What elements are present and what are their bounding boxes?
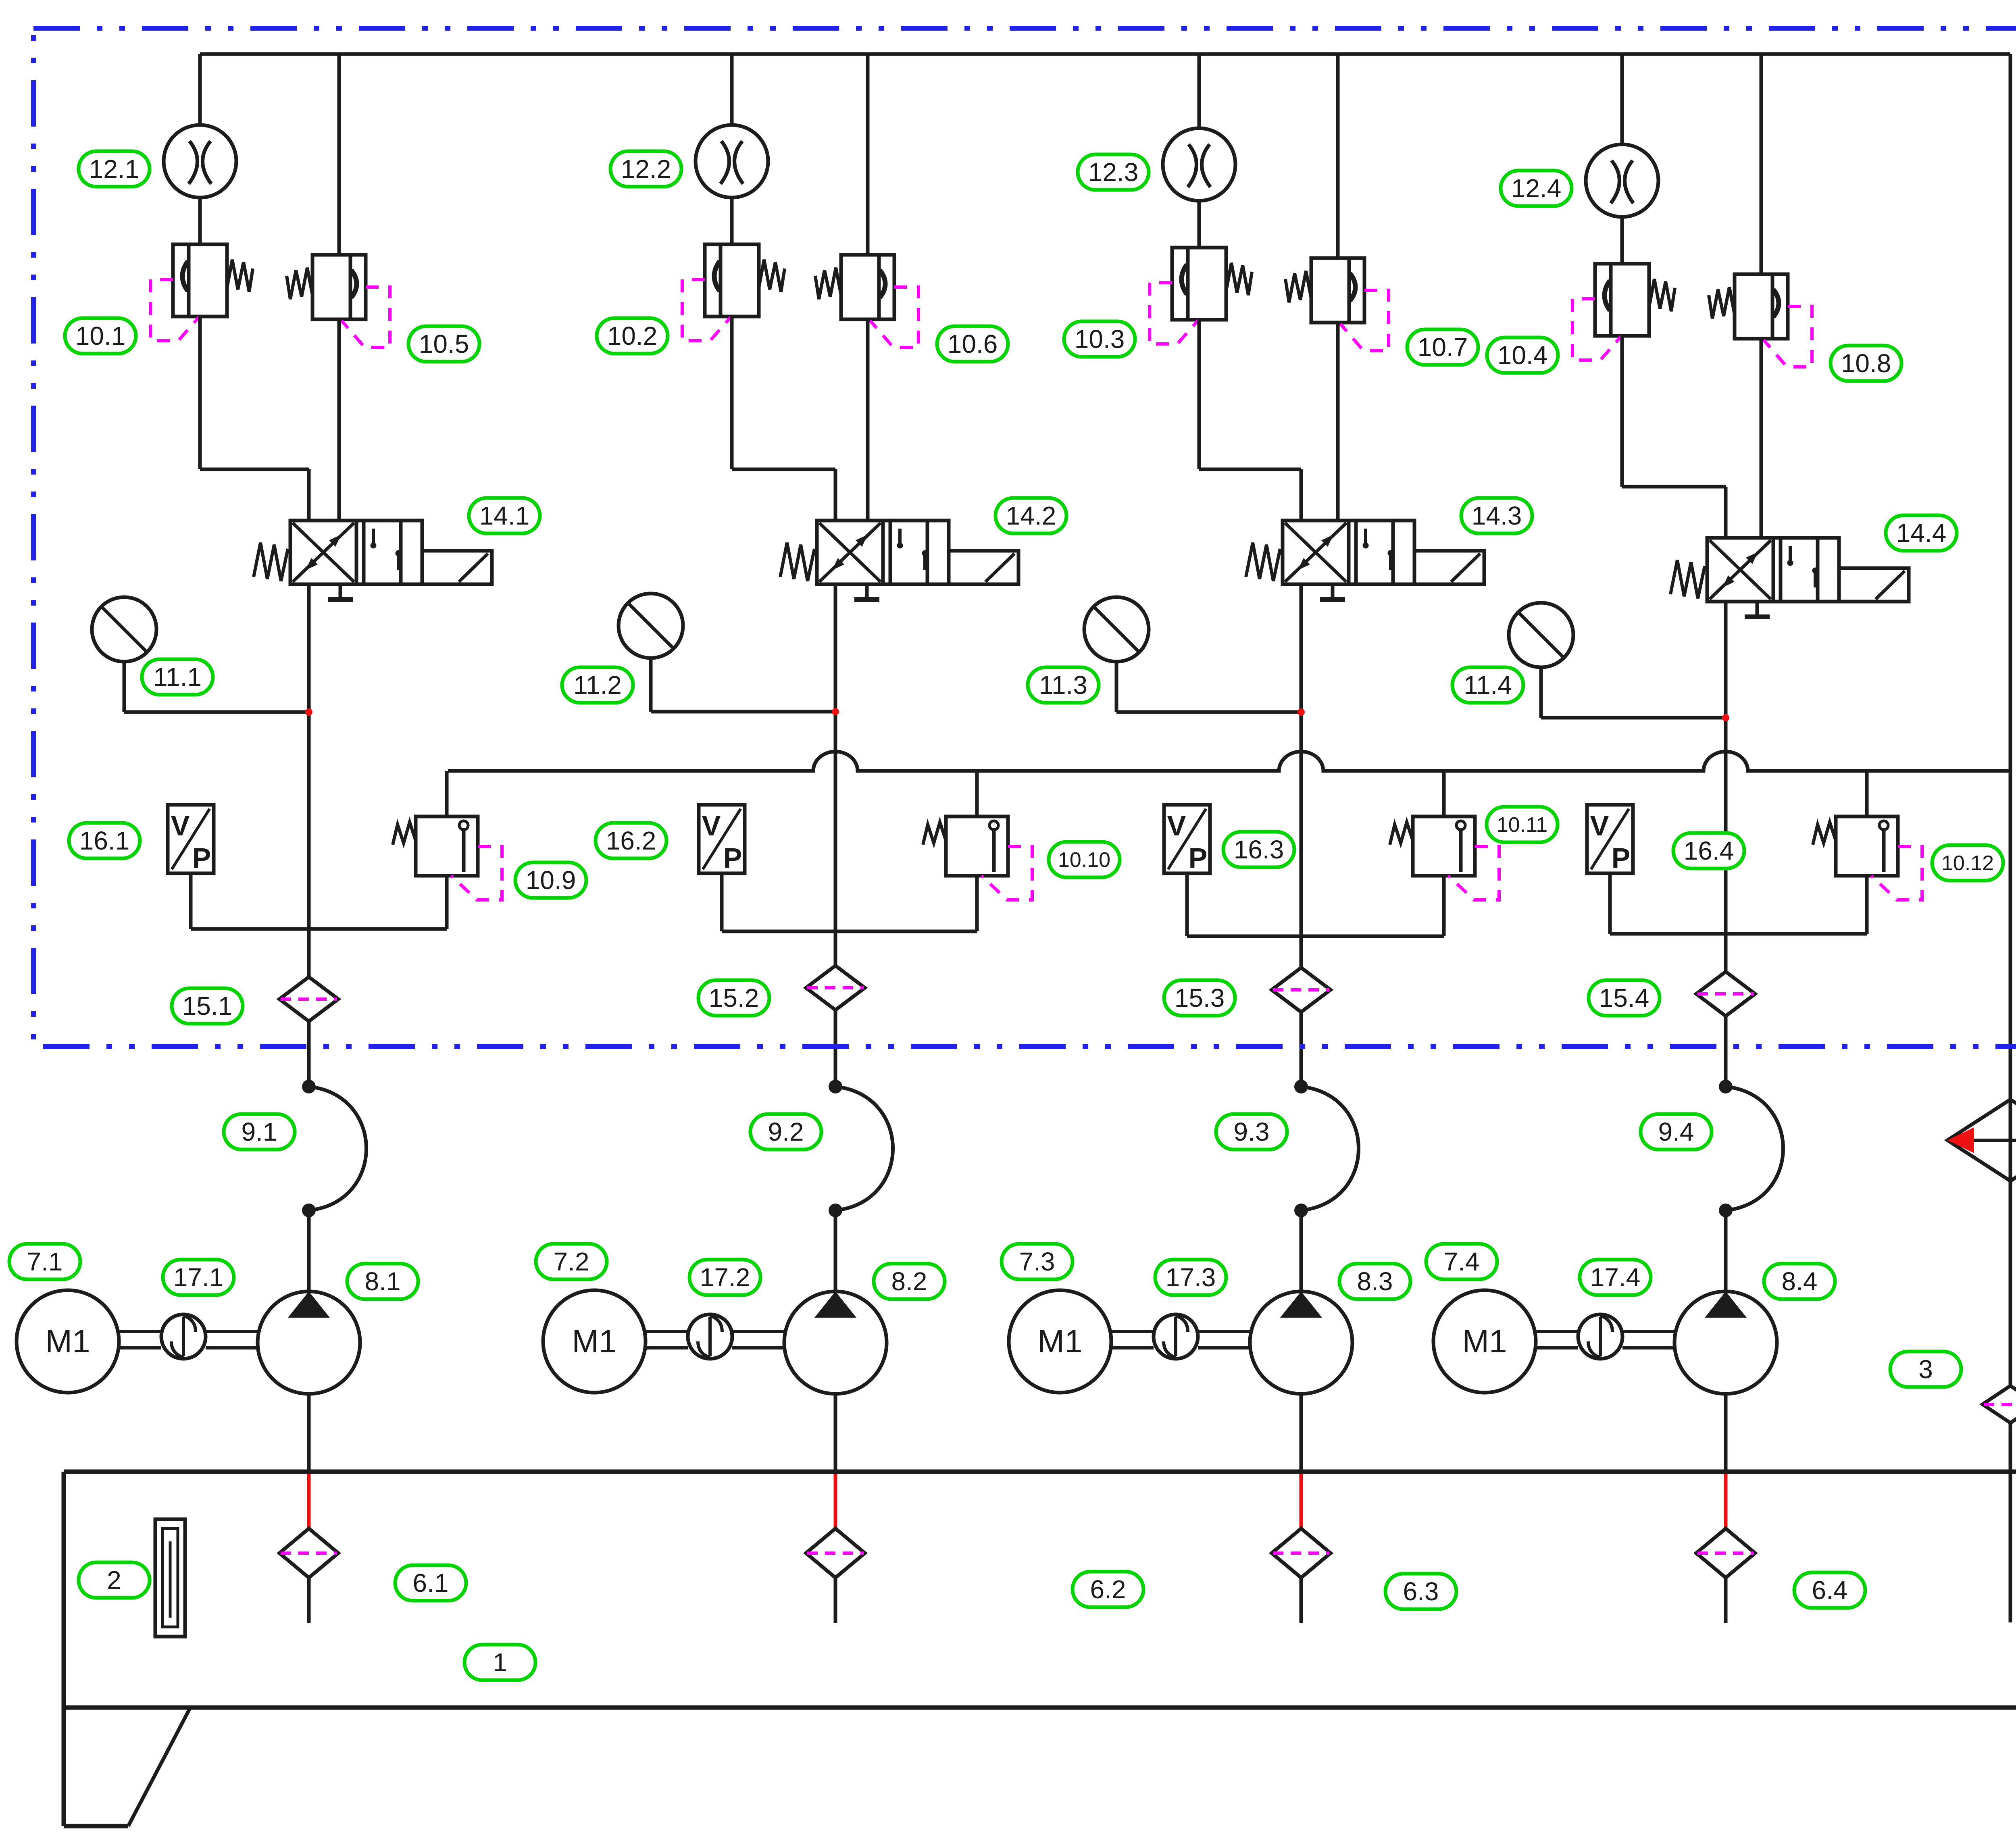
svg-text:10.9: 10.9 — [526, 866, 576, 895]
svg-text:9.1: 9.1 — [242, 1117, 277, 1146]
svg-text:7.1: 7.1 — [27, 1247, 63, 1276]
svg-text:10.5: 10.5 — [419, 329, 469, 358]
svg-text:8.1: 8.1 — [365, 1267, 401, 1296]
svg-text:10.2: 10.2 — [607, 321, 658, 350]
svg-text:12.1: 12.1 — [89, 154, 140, 183]
svg-text:9.3: 9.3 — [1234, 1117, 1270, 1146]
svg-text:6.2: 6.2 — [1090, 1575, 1126, 1604]
svg-text:17.3: 17.3 — [1166, 1263, 1216, 1292]
svg-text:P: P — [723, 842, 742, 874]
svg-text:7.2: 7.2 — [554, 1247, 589, 1276]
svg-text:8.2: 8.2 — [891, 1267, 927, 1296]
svg-text:6.1: 6.1 — [413, 1568, 449, 1597]
svg-text:10.11: 10.11 — [1497, 813, 1547, 837]
svg-text:17.1: 17.1 — [173, 1263, 224, 1292]
svg-text:M1: M1 — [1462, 1323, 1507, 1359]
svg-text:14.2: 14.2 — [1006, 501, 1056, 530]
svg-text:10.6: 10.6 — [948, 329, 998, 358]
svg-text:10.7: 10.7 — [1418, 333, 1468, 362]
svg-text:16.1: 16.1 — [79, 826, 130, 855]
svg-text:P: P — [1612, 842, 1631, 874]
svg-text:M1: M1 — [572, 1323, 616, 1359]
svg-text:12.4: 12.4 — [1511, 174, 1562, 203]
svg-text:16.3: 16.3 — [1234, 835, 1284, 864]
svg-text:10.10: 10.10 — [1058, 848, 1110, 872]
svg-text:9.4: 9.4 — [1658, 1117, 1694, 1146]
svg-text:11.3: 11.3 — [1039, 671, 1087, 700]
svg-text:10.1: 10.1 — [75, 321, 126, 350]
svg-text:15.1: 15.1 — [182, 991, 233, 1020]
svg-text:7.3: 7.3 — [1019, 1247, 1055, 1276]
svg-text:9.2: 9.2 — [768, 1117, 804, 1146]
svg-text:M1: M1 — [45, 1323, 90, 1359]
svg-text:12.3: 12.3 — [1088, 158, 1139, 187]
svg-text:V: V — [1590, 810, 1609, 841]
svg-text:V: V — [1167, 810, 1186, 841]
svg-text:6.4: 6.4 — [1812, 1576, 1848, 1605]
svg-text:V: V — [702, 810, 721, 841]
svg-text:M1: M1 — [1037, 1323, 1082, 1359]
svg-text:17.4: 17.4 — [1590, 1263, 1641, 1292]
svg-text:14.4: 14.4 — [1896, 519, 1947, 548]
svg-text:14.1: 14.1 — [479, 501, 530, 530]
svg-text:11.2: 11.2 — [573, 671, 622, 700]
svg-text:16.2: 16.2 — [606, 826, 656, 855]
svg-text:10.8: 10.8 — [1841, 349, 1891, 378]
svg-text:11.1: 11.1 — [153, 662, 202, 691]
svg-text:16.4: 16.4 — [1684, 836, 1734, 865]
svg-text:17.2: 17.2 — [700, 1263, 750, 1292]
svg-text:8.3: 8.3 — [1357, 1267, 1393, 1296]
svg-text:14.3: 14.3 — [1472, 501, 1522, 530]
svg-text:6.3: 6.3 — [1403, 1577, 1439, 1606]
svg-text:3: 3 — [1918, 1355, 1933, 1384]
svg-text:P: P — [1189, 842, 1208, 874]
svg-text:15.4: 15.4 — [1599, 983, 1649, 1012]
svg-text:7.4: 7.4 — [1444, 1247, 1480, 1276]
svg-text:P: P — [192, 842, 211, 874]
svg-text:1: 1 — [493, 1648, 507, 1677]
svg-text:10.3: 10.3 — [1075, 325, 1125, 354]
svg-text:V: V — [171, 810, 190, 841]
svg-text:12.2: 12.2 — [621, 154, 671, 183]
svg-text:10.4: 10.4 — [1497, 341, 1548, 370]
svg-text:2: 2 — [107, 1566, 121, 1595]
svg-text:10.12: 10.12 — [1941, 852, 1994, 875]
svg-text:15.3: 15.3 — [1175, 983, 1225, 1012]
svg-text:11.4: 11.4 — [1464, 671, 1512, 700]
svg-text:15.2: 15.2 — [709, 983, 759, 1012]
svg-text:8.4: 8.4 — [1782, 1267, 1818, 1296]
